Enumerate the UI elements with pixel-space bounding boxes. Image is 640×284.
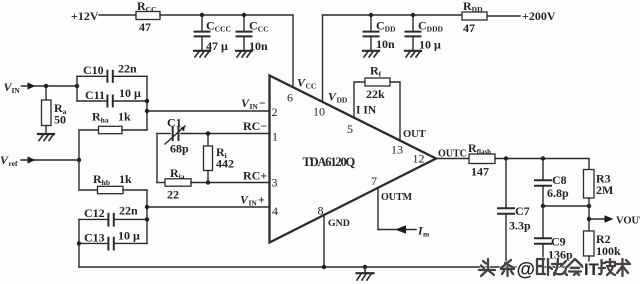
node Vref junction (77, 158, 81, 162)
node C13 left junction (77, 241, 81, 245)
capacitor C8 6.8p (535, 159, 569, 207)
svg-text:22n: 22n (118, 62, 137, 76)
ground (CDDD) (405, 51, 421, 57)
svg-text:136p: 136p (548, 248, 573, 262)
ground symbol on rail (357, 267, 374, 280)
pin 8 GND wire (323, 215, 325, 267)
svg-text:1: 1 (272, 130, 278, 144)
node junction C_CC (242, 13, 246, 17)
ground (Ra) (38, 134, 54, 141)
svg-text:CC: CC (306, 82, 317, 91)
wire to pin 4 VIN+ (147, 206, 270, 208)
node pin4 junction (145, 205, 149, 209)
wire Ria to pin 3 RC+ (208, 182, 270, 184)
svg-text:C1: C1 (167, 116, 182, 130)
watermark char 卧 (537, 259, 552, 275)
svg-text:+200V: +200V (522, 9, 556, 23)
wire C1 left vertical down to Ria (156, 134, 158, 183)
watermark char 头 (479, 259, 495, 276)
wire pin 5 up to Rf (354, 82, 365, 117)
svg-text:OUTM: OUTM (381, 192, 413, 203)
svg-text:50: 50 (54, 113, 66, 127)
resistor Rha 1k (79, 110, 147, 134)
svg-text:m: m (423, 230, 430, 239)
node middle rail right (587, 204, 591, 208)
svg-text:3: 3 (272, 176, 278, 190)
svg-text:@: @ (517, 260, 536, 281)
wire RCC to VCC corner and down to pin 6 (160, 15, 293, 86)
svg-text:RC+: RC+ (243, 169, 267, 183)
pin 7 OUTM wire (377, 188, 379, 230)
svg-text:DD: DD (337, 96, 348, 105)
svg-text:RC−: RC− (243, 119, 267, 133)
svg-text:6.8p: 6.8p (547, 186, 569, 200)
svg-text:6: 6 (287, 91, 293, 105)
capacitor CDD 10n (364, 15, 397, 51)
svg-text:C13: C13 (84, 231, 105, 245)
svg-text:C7: C7 (515, 204, 530, 218)
resistor Rhb 1k (79, 172, 147, 194)
wire +200V rail corner down to pin 10 (323, 15, 463, 101)
variable capacitor C1 68p (157, 116, 270, 156)
capacitor CDDD 10u (406, 15, 444, 52)
svg-text:68p: 68p (170, 142, 189, 156)
watermark char 术 (615, 259, 630, 276)
capacitor C13 10u (79, 229, 147, 250)
pin 12 OUTC wire (436, 158, 469, 160)
Im current arrow (378, 229, 416, 231)
node junction C_DDD (411, 13, 415, 17)
resistor R3 2M (584, 170, 614, 232)
ground rail bottom (79, 266, 589, 268)
node C11 right junction (145, 99, 149, 103)
node junction C_CCC (200, 13, 204, 17)
ground (CCC) (236, 51, 252, 57)
svg-text:C10: C10 (83, 63, 104, 77)
svg-text:C12: C12 (84, 206, 105, 220)
resistor RCC (136, 12, 160, 20)
capacitor CCC 10n (237, 15, 269, 53)
wire to pin 2 VIN- (147, 110, 270, 112)
wire VIN node (46, 85, 77, 87)
svg-text:10: 10 (313, 105, 325, 119)
svg-text:+12V: +12V (71, 9, 99, 23)
svg-text:10 μ: 10 μ (119, 86, 141, 100)
svg-text:2: 2 (272, 105, 278, 119)
ground (CCCC) (194, 51, 210, 57)
wire Rf right down to OUT pin 13 (390, 82, 400, 141)
resistor Rf 22k (365, 64, 390, 102)
svg-text:8: 8 (318, 204, 324, 218)
resistor Ri 442 (204, 134, 235, 183)
ground (CDD) (363, 51, 379, 57)
resistor Ria 22 (157, 166, 208, 202)
svg-text:OUTC: OUTC (438, 149, 467, 160)
svg-text:C11: C11 (85, 88, 105, 102)
svg-text:100k: 100k (596, 244, 621, 258)
wire C10/C11 left vertical (76, 76, 78, 101)
svg-text:−: − (259, 96, 266, 110)
node Ri bottom junction (206, 180, 210, 184)
watermark char 龙 (552, 259, 567, 275)
svg-text:1k: 1k (116, 172, 132, 186)
node C8 junction (541, 156, 545, 160)
svg-text:12: 12 (413, 152, 425, 166)
watermark 头条@卧龙会IT技术 (479, 259, 630, 281)
wire RDD to +200V (487, 15, 520, 17)
resistor RDD (462, 12, 487, 20)
resistor Ra 50 (42, 86, 67, 134)
svg-text:47: 47 (139, 20, 151, 34)
resistor R2 100k (584, 231, 622, 267)
wire Rflash to R3 top (495, 159, 589, 170)
svg-text:47: 47 (463, 21, 475, 35)
capacitor CCCC 47u (195, 15, 231, 53)
watermark char 条 (501, 260, 514, 276)
svg-text:I IN: I IN (356, 105, 377, 117)
wire C12/C13 left vertical to ground rail (78, 219, 80, 267)
resistor Rflash 147 (468, 141, 495, 179)
node C12 right junction (145, 217, 149, 221)
node VIN junction (44, 84, 48, 88)
svg-text:IN: IN (249, 199, 258, 208)
svg-text:IT: IT (584, 261, 599, 279)
node junction C_DD (369, 13, 373, 17)
svg-text:4: 4 (272, 204, 278, 218)
svg-text:7: 7 (371, 174, 377, 188)
svg-text:ref: ref (9, 159, 19, 168)
svg-text:5: 5 (347, 122, 353, 136)
capacitor C7 3.3p (498, 159, 531, 268)
svg-text:10n: 10n (376, 37, 395, 51)
svg-text:OUT: OUT (403, 129, 426, 140)
wire Rha left vertical down to Vref node (78, 130, 80, 160)
node VOUT junction (587, 217, 591, 221)
svg-text:IN: IN (250, 102, 259, 111)
node C7 junction (504, 156, 508, 160)
node pin2 wire junction (145, 109, 149, 113)
capacitor C9 136p (535, 206, 573, 267)
node ground symbol junction (363, 265, 367, 269)
wire +12V to RCC (99, 14, 136, 16)
svg-text:TDA6120Q: TDA6120Q (303, 155, 356, 169)
svg-text:2M: 2M (596, 183, 613, 197)
svg-text:10 μ: 10 μ (419, 38, 441, 52)
svg-text:22k: 22k (366, 87, 385, 101)
capacitor C11 10u (77, 86, 147, 107)
svg-text:22n: 22n (119, 204, 138, 218)
watermark char 技 (599, 259, 615, 275)
VOUT arrow and label (589, 218, 604, 220)
wire C10/C11 right vertical down to Rha (146, 76, 148, 130)
capacitor C10 22n (77, 62, 147, 82)
svg-text:10 μ: 10 μ (118, 229, 140, 243)
wire middle rail C8 to R3 (543, 205, 589, 207)
capacitor C12 22n (79, 204, 147, 226)
svg-text:C8: C8 (552, 173, 567, 187)
svg-text:442: 442 (216, 157, 234, 171)
wire Vref down to Rhb (78, 160, 80, 190)
svg-text:3.3p: 3.3p (509, 219, 531, 233)
node middle rail left (541, 204, 545, 208)
svg-text:IN: IN (12, 86, 21, 95)
watermark char 会 (567, 259, 583, 275)
svg-text:C9: C9 (551, 235, 566, 249)
svg-text:GND: GND (328, 218, 350, 229)
svg-text:147: 147 (471, 165, 489, 179)
node C10/C11 left junction (75, 84, 79, 88)
node Ri top junction (206, 131, 210, 135)
svg-text:VOUT: VOUT (616, 216, 640, 227)
svg-text:+: + (258, 193, 265, 207)
node pin8 rail junction (322, 265, 326, 269)
svg-text:1k: 1k (115, 110, 131, 124)
op-amp U1 TDA6120Q triangle (270, 76, 437, 243)
svg-text:13: 13 (391, 143, 403, 157)
wire Rhb right vertical (146, 190, 148, 243)
svg-text:22: 22 (167, 188, 179, 202)
